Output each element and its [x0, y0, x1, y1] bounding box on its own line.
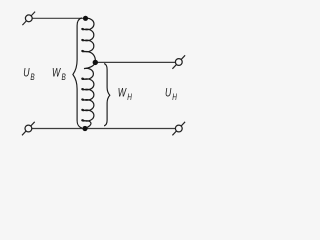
svg-text:B: B — [30, 72, 34, 82]
label U_B — [23, 66, 34, 82]
brace left (W_B) — [73, 18, 82, 128]
terminal lower-right — [172, 122, 185, 136]
wire bottom: lower-left terminal to lower-right terminal — [31, 128, 176, 130]
svg-text:W: W — [118, 86, 127, 100]
label W_B — [52, 66, 66, 82]
brace right (W_H) — [104, 64, 110, 126]
terminal bottom-left — [22, 122, 35, 136]
junction dot top — [83, 16, 88, 21]
terminal upper-right — [172, 55, 185, 69]
wire top: terminal to winding top — [31, 17, 86, 19]
wire tap: winding tap to upper-right terminal — [95, 61, 176, 63]
svg-text:W: W — [52, 66, 61, 80]
svg-text:U: U — [165, 86, 172, 100]
junction dot tap — [93, 60, 98, 65]
junction dot bottom — [82, 126, 87, 131]
svg-text:U: U — [23, 66, 30, 80]
label W_H — [118, 86, 133, 102]
svg-text:H: H — [172, 92, 177, 102]
svg-text:B: B — [62, 72, 66, 82]
label U_H — [165, 86, 177, 102]
svg-text:H: H — [127, 92, 132, 102]
terminal top-left — [22, 12, 35, 26]
winding W (autotransformer coil) — [82, 18, 96, 128]
